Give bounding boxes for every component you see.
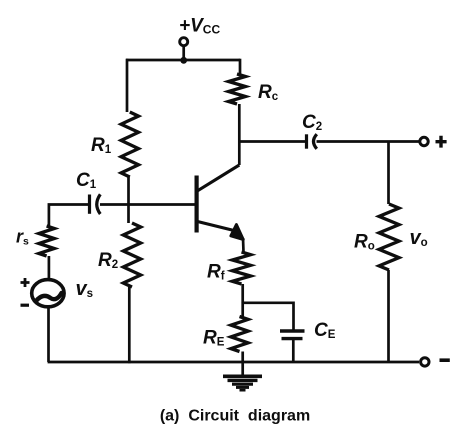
svg-text:vo: vo [410,227,428,249]
svg-text:R2: R2 [98,250,118,271]
svg-text:Ro: Ro [354,232,375,253]
svg-text:Rc: Rc [258,82,279,103]
svg-text:(a) Circuit diagram: (a) Circuit diagram [160,408,310,425]
svg-text:rs: rs [16,227,29,248]
svg-text:CE: CE [314,320,336,341]
svg-text:C2: C2 [302,112,322,133]
svg-text:C1: C1 [76,170,97,191]
svg-text:R1: R1 [91,135,112,156]
svg-text:vs: vs [76,278,94,300]
svg-text:RE: RE [203,328,225,349]
svg-text:Rf: Rf [207,262,225,283]
svg-text:+VCC: +VCC [179,16,220,37]
